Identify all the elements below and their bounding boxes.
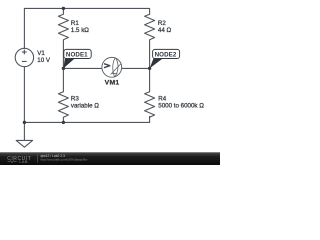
wire middle left (NODE1 to VM1) [63, 67, 102, 69]
svg-text:1.5 kΩ: 1.5 kΩ [71, 27, 89, 34]
svg-text:R3: R3 [71, 96, 79, 103]
svg-text:NODE1: NODE1 [66, 51, 88, 58]
svg-text:VM1: VM1 [105, 79, 120, 86]
svg-text:R4: R4 [158, 96, 166, 103]
junction node dot ground [23, 121, 26, 124]
V1 minus sign [22, 60, 27, 62]
node NODE1 flag [63, 49, 91, 68]
wire bottom rail [24, 116, 149, 122]
svg-text:NODE2: NODE2 [155, 51, 177, 58]
junction node dot bottom (R3) [62, 121, 65, 124]
wire middle right (VM1 to NODE2) [122, 67, 150, 69]
resistor R2 [145, 14, 155, 68]
voltage source V1 [15, 48, 33, 66]
voltmeter VM1 [102, 57, 122, 77]
svg-text:LAB: LAB [19, 159, 28, 164]
resistor R1 [58, 8, 68, 68]
junction node dot NODE1 [62, 67, 65, 70]
svg-text:10 V: 10 V [37, 57, 51, 64]
V1 plus sign [22, 50, 27, 62]
node NODE2 flag [150, 49, 180, 68]
svg-text:R1: R1 [71, 20, 79, 27]
svg-text:R2: R2 [158, 20, 166, 27]
svg-text:44 Ω: 44 Ω [158, 27, 172, 34]
junction node dot top (R1) [62, 7, 65, 10]
svg-text:5000 to 6000k Ω: 5000 to 6000k Ω [158, 103, 204, 110]
footer divider [37, 154, 39, 162]
svg-text:V1: V1 [37, 50, 45, 57]
svg-text:http://circuitlab.com/c/59x3bp: http://circuitlab.com/c/59x3bpqe5kv [41, 158, 88, 162]
footer logo squiggle + LAB [8, 161, 17, 163]
ground [23, 122, 25, 140]
svg-text:variable Ω: variable Ω [71, 103, 99, 110]
junction node dot NODE2 [148, 67, 151, 70]
wire V1 bottom to ground rail [23, 67, 25, 123]
wire top rail [24, 8, 149, 48]
resistor R3 [58, 68, 68, 122]
resistor R4 [145, 68, 155, 117]
